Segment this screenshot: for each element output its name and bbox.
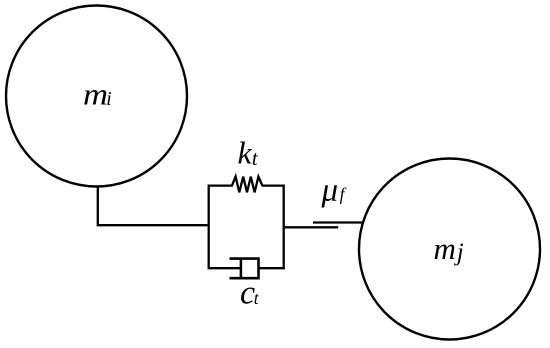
svg-text:k: k [238, 135, 253, 171]
damper piston plate [240, 259, 243, 279]
wire from box to friction contact (lower line) [284, 226, 339, 228]
svg-text:μ: μ [321, 173, 339, 209]
svg-text:m: m [434, 231, 456, 266]
svg-text:i: i [106, 89, 111, 110]
mass circle m_j [359, 159, 540, 340]
label c_t [240, 275, 260, 312]
svg-text:m: m [83, 77, 108, 112]
damper right wire [259, 267, 285, 269]
mass circle m_i [6, 6, 187, 187]
box left vertical wire [208, 185, 210, 270]
label mu_f [321, 173, 347, 209]
box right vertical wire [283, 185, 285, 270]
damper cylinder (open left) [230, 259, 259, 279]
label m_j [434, 231, 464, 266]
label m_i [83, 77, 112, 112]
damper c_t bottom branch: left wire to piston [209, 267, 241, 269]
svg-text:t: t [252, 146, 259, 170]
spring k_t on top branch [209, 177, 284, 193]
svg-text:t: t [254, 288, 260, 308]
label k_t [238, 135, 259, 171]
friction contact upper line to m_j [313, 221, 363, 223]
wire from m_i bottom to spring-damper box [98, 186, 208, 225]
svg-text:f: f [340, 184, 347, 204]
